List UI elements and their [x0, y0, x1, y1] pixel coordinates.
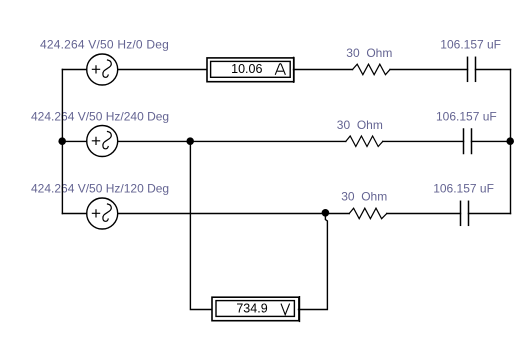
- wire row2 left: [62, 140, 86, 142]
- resistor R3: [349, 208, 387, 219]
- wire right bus vertical: [510, 70, 512, 214]
- capacitor C1: [468, 57, 476, 81]
- wire row3 left: [62, 213, 86, 215]
- svg-text:106.157 uF: 106.157 uF: [440, 37, 501, 51]
- ammeter unit A: [275, 64, 285, 75]
- node dot row3: [322, 209, 330, 217]
- wire C1 to right bus: [476, 69, 511, 71]
- wire R2 to C2: [383, 140, 464, 142]
- voltmeter U2: [212, 297, 300, 322]
- capacitor C3: [461, 201, 469, 225]
- svg-text:30 Ohm: 30 Ohm: [341, 189, 387, 203]
- capacitor C2: [464, 129, 472, 154]
- wire row1 source to ammeter: [118, 69, 207, 71]
- wire voltmeter left vertical: [190, 141, 211, 309]
- svg-text:106.157 uF: 106.157 uF: [436, 109, 497, 123]
- AC source V2: [87, 126, 118, 157]
- wire voltmeter right vertical: [299, 214, 328, 310]
- wire row1 left: [62, 69, 86, 71]
- ammeter U1: [207, 57, 294, 82]
- resistor R2: [346, 136, 383, 147]
- wire row2 source to node: [118, 140, 191, 142]
- svg-text:106.157 uF: 106.157 uF: [433, 181, 494, 195]
- wire node to R2: [190, 140, 345, 142]
- wire row3 source to node: [118, 213, 350, 215]
- AC source V1: [87, 54, 118, 85]
- wire C2 to right bus: [472, 140, 511, 142]
- wire R1 to C1: [390, 69, 468, 71]
- node dot left bus: [58, 137, 66, 145]
- svg-text:424.264 V/50 Hz/0 Deg: 424.264 V/50 Hz/0 Deg: [40, 38, 169, 52]
- svg-text:10.06: 10.06: [231, 62, 262, 76]
- wire left bus vertical: [61, 70, 63, 214]
- svg-text:734.9: 734.9: [236, 301, 267, 315]
- wire ammeter to R1: [294, 69, 353, 71]
- node dot right bus: [506, 137, 514, 145]
- svg-text:424.264 V/50 Hz/240 Deg: 424.264 V/50 Hz/240 Deg: [31, 109, 169, 123]
- voltmeter unit V: [281, 304, 290, 315]
- svg-text:424.264 V/50 Hz/120 Deg: 424.264 V/50 Hz/120 Deg: [31, 182, 169, 196]
- svg-text:30 Ohm: 30 Ohm: [337, 118, 383, 132]
- AC source V3: [87, 198, 118, 229]
- wire R3 to C3: [387, 213, 461, 215]
- resistor R1: [353, 64, 391, 75]
- svg-text:30 Ohm: 30 Ohm: [346, 46, 392, 60]
- wire C3 to right bus: [469, 213, 511, 215]
- node dot row2: [186, 137, 194, 145]
